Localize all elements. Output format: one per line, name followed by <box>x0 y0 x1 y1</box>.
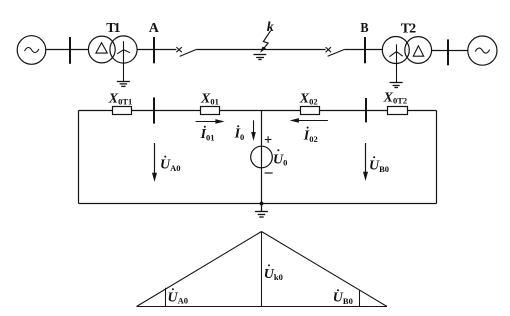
triangle right slope <box>262 232 388 307</box>
svg-text:k: k <box>267 20 274 35</box>
T1 wye winding symbol (grounded neutral) <box>117 41 130 81</box>
label I0 <box>234 125 245 142</box>
current arrow I0 <box>251 120 256 141</box>
wire switch to bus B to T2 <box>344 49 382 51</box>
right edge wire <box>436 111 438 204</box>
voltage triangle: base <box>137 232 388 307</box>
resistor X01 <box>201 107 220 115</box>
breaker mark x (right) <box>326 47 331 52</box>
label UA0 <box>160 156 181 173</box>
node tick bus B (zero-seq) <box>365 98 367 122</box>
svg-text:I02: I02 <box>303 128 318 144</box>
svg-text:A: A <box>149 21 160 36</box>
T2 delta winding symbol <box>413 46 424 56</box>
wire T1 to bus A to switch <box>137 49 176 51</box>
resistor X0T1 <box>113 107 132 115</box>
ground (T2 neutral) <box>390 83 403 88</box>
ground (T1 neutral) <box>117 82 130 87</box>
svg-text:X0T1: X0T1 <box>108 91 133 106</box>
svg-text:T2: T2 <box>401 22 416 37</box>
bus bar (generator G2 side) <box>447 39 449 65</box>
resistor X02 <box>301 107 320 115</box>
T2 wye winding symbol (grounded neutral) <box>389 44 402 82</box>
svg-text:I01: I01 <box>200 127 215 143</box>
svg-text:X01: X01 <box>200 91 219 106</box>
current arrow I01 <box>196 119 225 124</box>
label I01 <box>200 126 215 143</box>
svg-text:I0: I0 <box>234 127 245 143</box>
svg-text:X02: X02 <box>299 91 318 106</box>
UA0 ordinate tick <box>165 288 167 307</box>
Uk0 ordinate line <box>261 232 263 307</box>
minus sign (source polarity) <box>265 172 273 174</box>
svg-text:U0: U0 <box>273 152 287 167</box>
ground (network reference) <box>255 204 268 218</box>
label UA0 (triangle) <box>168 288 189 305</box>
bottom wire <box>79 203 437 205</box>
label UB0 (triangle) <box>333 289 353 306</box>
plus sign (source polarity) <box>265 136 272 143</box>
svg-text:X0T2: X0T2 <box>383 90 408 105</box>
T1 delta winding symbol <box>96 43 107 54</box>
svg-text:B: B <box>360 21 368 36</box>
center vertical wire (fault branch) <box>261 111 263 204</box>
bus B bar <box>364 37 366 63</box>
voltage arrow UB0 <box>363 143 368 181</box>
label UB0 <box>369 156 389 174</box>
wire switch to fault point k <box>196 49 325 51</box>
top wire <box>79 110 437 112</box>
svg-text:UB0: UB0 <box>333 291 353 306</box>
node tick bus A (zero-seq) <box>153 97 155 123</box>
bus A bar <box>153 37 155 63</box>
fault lightning arrow <box>260 31 270 53</box>
zero-sequence network outline: left edge wire <box>78 111 80 204</box>
svg-text:UB0: UB0 <box>369 159 389 174</box>
switch blade (left) <box>180 50 197 57</box>
generator G2 (right) <box>468 36 497 65</box>
junction node (ground tie) <box>260 202 264 206</box>
generator G1 (left) <box>17 36 46 65</box>
UB0 ordinate tick <box>359 291 361 307</box>
label I02 <box>303 127 318 144</box>
bus bar (generator G1 side) <box>69 37 71 64</box>
ground (fault point) <box>254 55 267 60</box>
svg-text:Uk0: Uk0 <box>264 267 283 282</box>
current arrow I02 <box>290 118 328 123</box>
label Uk0 <box>264 264 283 282</box>
label U0 <box>273 149 287 167</box>
transformer T2 <box>382 37 431 64</box>
transformer T1 <box>88 36 137 63</box>
resistor X0T2 <box>388 107 408 115</box>
voltage arrow UA0 <box>152 143 157 182</box>
breaker mark x (left) <box>176 47 181 52</box>
svg-text:T1: T1 <box>106 21 120 36</box>
switch blade (right) <box>328 50 345 57</box>
wire G1 to T1 <box>46 49 89 51</box>
triangle left slope <box>137 232 262 307</box>
voltage source U0 <box>251 146 273 168</box>
wire T2 to G2 <box>432 50 468 52</box>
svg-text:UA0: UA0 <box>168 290 189 305</box>
svg-text:UA0: UA0 <box>160 158 181 173</box>
